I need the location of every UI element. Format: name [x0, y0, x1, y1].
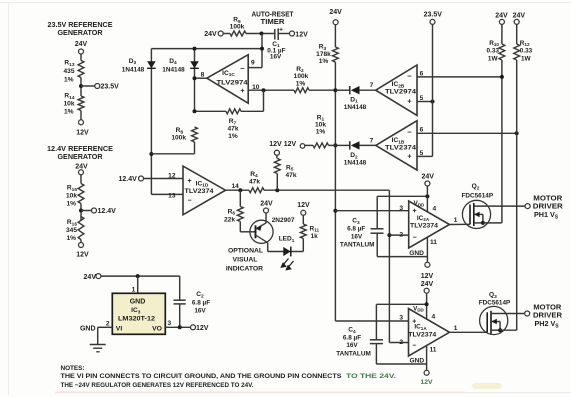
svg-text:22k: 22k	[224, 216, 235, 223]
svg-text:7: 7	[370, 82, 374, 89]
svg-text:16V: 16V	[346, 342, 358, 349]
svg-text:TANTALUM: TANTALUM	[340, 242, 375, 249]
svg-text:435: 435	[63, 68, 74, 75]
svg-text:11: 11	[430, 347, 437, 354]
svg-text:1N4148: 1N4148	[162, 67, 185, 74]
svg-text:23.5V: 23.5V	[101, 84, 120, 91]
svg-text:2: 2	[399, 231, 403, 238]
svg-text:THE VI PIN CONNECTS TO CIRCUIT: THE VI PIN CONNECTS TO CIRCUIT GROUND, A…	[61, 373, 343, 380]
svg-text:INDICATOR: INDICATOR	[226, 265, 263, 272]
svg-text:THE −24V REGULATOR GENERATES 1: THE −24V REGULATOR GENERATES 12V REFEREN…	[61, 382, 254, 389]
svg-text:24V: 24V	[204, 31, 217, 38]
svg-text:24V: 24V	[513, 12, 526, 19]
svg-text:10: 10	[252, 84, 260, 91]
svg-text:1: 1	[454, 325, 458, 332]
svg-text:+: +	[279, 27, 283, 34]
svg-text:24V: 24V	[495, 12, 508, 19]
svg-text:16V: 16V	[270, 53, 282, 60]
svg-text:LM320T-12: LM320T-12	[118, 315, 155, 322]
svg-text:47k: 47k	[249, 178, 260, 185]
svg-text:12.4V: 12.4V	[98, 208, 117, 215]
svg-text:4: 4	[432, 313, 436, 320]
svg-text:24V: 24V	[329, 9, 342, 16]
svg-text:GND: GND	[80, 326, 96, 333]
svg-text:+: +	[407, 152, 412, 161]
svg-text:10k: 10k	[66, 193, 77, 200]
svg-text:24V: 24V	[75, 41, 88, 48]
svg-text:12V: 12V	[196, 325, 209, 332]
svg-text:−: −	[240, 64, 245, 73]
svg-text:1%: 1%	[66, 201, 76, 208]
svg-text:FDC5614P: FDC5614P	[461, 193, 493, 200]
svg-text:6.8 µF: 6.8 µF	[343, 335, 361, 342]
svg-text:2: 2	[399, 339, 403, 346]
svg-text:+: +	[407, 97, 412, 106]
svg-text:16V: 16V	[194, 307, 206, 314]
svg-text:3: 3	[168, 320, 172, 327]
svg-text:10k: 10k	[63, 101, 74, 108]
svg-text:GENERATOR: GENERATOR	[58, 28, 104, 37]
svg-text:47k: 47k	[286, 172, 297, 179]
svg-text:6.8 µF: 6.8 µF	[347, 226, 365, 233]
svg-text:24V: 24V	[260, 201, 273, 208]
svg-text:TLV2374: TLV2374	[385, 145, 417, 152]
svg-text:3: 3	[399, 205, 403, 212]
svg-text:+: +	[240, 86, 245, 95]
svg-text:GND: GND	[409, 250, 424, 257]
svg-text:24V: 24V	[421, 173, 434, 180]
svg-text:24V: 24V	[421, 281, 434, 288]
svg-text:1N4148: 1N4148	[344, 160, 367, 167]
svg-text:TANTALUM: TANTALUM	[336, 351, 371, 358]
svg-text:TIMER: TIMER	[261, 17, 286, 26]
svg-text:6: 6	[420, 127, 424, 134]
svg-text:345: 345	[66, 227, 77, 234]
svg-text:TLV2374: TLV2374	[410, 223, 439, 230]
svg-text:5: 5	[420, 95, 424, 102]
svg-text:−: −	[407, 128, 412, 137]
svg-text:12V: 12V	[76, 252, 89, 259]
svg-text:VISUAL: VISUAL	[233, 256, 258, 263]
svg-text:NOTES:: NOTES:	[61, 365, 85, 372]
svg-text:100k: 100k	[294, 73, 309, 80]
svg-text:GENERATOR: GENERATOR	[58, 152, 104, 161]
svg-text:1%: 1%	[228, 133, 238, 140]
svg-text:178k: 178k	[316, 51, 331, 58]
svg-text:1%: 1%	[66, 235, 76, 242]
svg-text:1N4148: 1N4148	[122, 67, 145, 74]
svg-text:VO: VO	[152, 325, 162, 332]
svg-text:4: 4	[433, 206, 437, 213]
svg-text:12V: 12V	[76, 130, 89, 137]
svg-text:6.8 µF: 6.8 µF	[192, 300, 210, 307]
svg-text:12V: 12V	[284, 141, 297, 148]
svg-text:11: 11	[430, 239, 437, 246]
svg-text:TLV2974: TLV2974	[217, 80, 249, 87]
svg-text:13: 13	[168, 192, 176, 199]
svg-text:16V: 16V	[351, 234, 363, 241]
svg-text:12: 12	[168, 172, 176, 179]
svg-text:47k: 47k	[227, 126, 238, 133]
svg-text:1k: 1k	[311, 233, 319, 240]
svg-text:+: +	[187, 178, 191, 185]
svg-text:0.33: 0.33	[487, 48, 500, 55]
svg-text:1W: 1W	[488, 55, 499, 62]
svg-text:GND: GND	[130, 299, 146, 306]
svg-text:−: −	[412, 342, 416, 349]
svg-text:1: 1	[454, 217, 458, 224]
svg-text:8: 8	[201, 72, 205, 79]
svg-text:GND: GND	[410, 357, 425, 364]
svg-text:100k: 100k	[230, 24, 245, 31]
svg-text:14: 14	[232, 183, 240, 190]
svg-text:OPTIONAL: OPTIONAL	[228, 248, 263, 255]
svg-text:VI: VI	[116, 325, 123, 332]
svg-text:−: −	[412, 235, 416, 242]
svg-text:9: 9	[251, 59, 255, 66]
svg-text:TLV2374: TLV2374	[185, 188, 215, 195]
svg-text:12V: 12V	[295, 32, 308, 39]
svg-text:5: 5	[420, 150, 424, 157]
svg-text:TO THE 24V.: TO THE 24V.	[346, 373, 396, 380]
svg-text:TLV2374: TLV2374	[408, 332, 437, 339]
svg-text:12V: 12V	[297, 202, 310, 209]
svg-text:1N4148: 1N4148	[344, 104, 367, 111]
svg-text:2: 2	[106, 321, 110, 328]
svg-text:7: 7	[370, 137, 374, 144]
svg-text:−: −	[187, 197, 191, 204]
svg-text:10k: 10k	[315, 121, 326, 128]
svg-text:1%: 1%	[319, 58, 329, 65]
svg-text:23.5V: 23.5V	[424, 12, 443, 19]
svg-text:12V: 12V	[420, 379, 433, 386]
svg-text:TLV2974: TLV2974	[385, 89, 417, 96]
svg-text:6: 6	[420, 70, 424, 77]
svg-text:0.33: 0.33	[520, 48, 533, 55]
svg-text:24V: 24V	[84, 274, 97, 281]
svg-text:1%: 1%	[316, 128, 326, 135]
svg-text:12V: 12V	[269, 141, 282, 148]
svg-text:FDC5614P: FDC5614P	[479, 299, 511, 306]
svg-text:1%: 1%	[64, 77, 74, 84]
svg-text:2N2907: 2N2907	[272, 217, 295, 224]
svg-text:1%: 1%	[296, 81, 306, 88]
svg-text:12V: 12V	[421, 273, 434, 280]
svg-text:−: −	[407, 71, 412, 80]
svg-text:12.4V: 12.4V	[119, 176, 138, 183]
svg-text:1%: 1%	[64, 109, 74, 116]
svg-text:100k: 100k	[171, 135, 186, 142]
svg-text:1: 1	[132, 286, 136, 293]
svg-text:3: 3	[399, 315, 403, 322]
svg-text:1W: 1W	[521, 55, 532, 62]
